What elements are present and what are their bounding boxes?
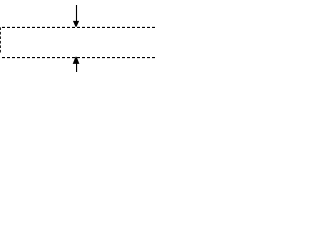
- dashed box: top edge: [0, 26, 156, 28]
- background: [0, 0, 156, 72]
- input arrow (pointing down): stem: [76, 5, 78, 22]
- output arrow (pointing up): stem: [76, 63, 78, 73]
- dashed box: left edge: [0, 27, 1, 53]
- dashed box: bottom edge: [0, 57, 156, 59]
- input arrow (pointing down): head: [73, 21, 79, 27]
- output arrow (pointing up): head: [73, 57, 80, 64]
